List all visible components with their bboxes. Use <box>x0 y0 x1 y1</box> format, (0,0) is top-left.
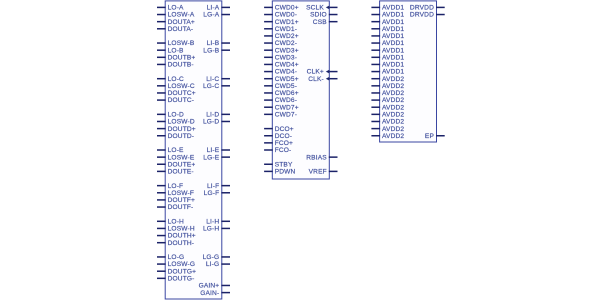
svg-text:CWD0+: CWD0+ <box>275 5 299 12</box>
svg-text:AVDD2: AVDD2 <box>382 97 404 104</box>
pin DOUTH+ (left, wire stub) <box>157 233 196 240</box>
svg-text:AVDD1: AVDD1 <box>382 26 404 33</box>
pin AVDD1 (left, wire stub) <box>371 5 404 12</box>
pin AVDD2 (left, wire stub) <box>371 112 404 119</box>
pin CWD1- (left, wire stub) <box>264 26 297 33</box>
svg-text:CWD4+: CWD4+ <box>275 62 299 69</box>
pin AVDD1 (left, wire stub) <box>371 47 404 54</box>
pin AVDD2 (left, wire stub) <box>371 104 404 111</box>
IC U1 block 3 (power) body <box>380 1 437 142</box>
pin LOSW-G (left, wire stub) <box>157 261 195 268</box>
svg-text:LG-B: LG-B <box>203 47 219 54</box>
pin AVDD1 (left, wire stub) <box>371 69 404 76</box>
svg-text:AVDD1: AVDD1 <box>382 33 404 40</box>
svg-text:AVDD2: AVDD2 <box>382 90 404 97</box>
svg-text:LO-C: LO-C <box>168 76 184 83</box>
pin LI-F (right, wire stub) <box>207 183 230 190</box>
pin EP (right, wire stub) <box>425 133 445 140</box>
svg-text:GAIN+: GAIN+ <box>199 283 220 290</box>
pin CSB (right, wire stub) <box>313 19 338 26</box>
svg-text:CWD6+: CWD6+ <box>275 90 299 97</box>
pin SCLK (right, wire stub, input arrow) <box>306 5 337 12</box>
svg-text:LOSW-G: LOSW-G <box>168 261 196 268</box>
pin CWD6- (left, wire stub) <box>264 97 297 104</box>
svg-text:LO-H: LO-H <box>168 218 184 225</box>
svg-text:DOUTF-: DOUTF- <box>168 204 194 211</box>
pin LOSW-F (left, wire stub) <box>157 190 194 197</box>
pin AVDD1 (left, wire stub) <box>371 40 404 47</box>
svg-text:AVDD1: AVDD1 <box>382 47 404 54</box>
svg-text:DOUTA-: DOUTA- <box>168 26 194 33</box>
pin AVDD2 (left, wire stub) <box>371 126 404 133</box>
pin DCO- (left, wire stub) <box>264 133 292 140</box>
pin LG-B (right, wire stub) <box>203 47 230 54</box>
pin LO-A (left, wire stub) <box>157 5 184 12</box>
svg-text:AVDD1: AVDD1 <box>382 19 404 26</box>
svg-text:CLK-: CLK- <box>308 76 324 83</box>
pin DOUTF- (left, wire stub) <box>157 204 193 211</box>
pin LO-G (left, wire stub) <box>157 254 184 261</box>
svg-text:DOUTG+: DOUTG+ <box>168 268 197 275</box>
pin LO-C (left, wire stub) <box>157 76 184 83</box>
pin CLK+ (right, wire stub, input arrow) <box>307 69 338 76</box>
pin AVDD2 (left, wire stub) <box>371 119 404 126</box>
svg-text:DOUTC-: DOUTC- <box>168 97 195 104</box>
svg-text:DOUTA+: DOUTA+ <box>168 19 195 26</box>
pin DOUTE- (left, wire stub) <box>157 169 194 176</box>
pin AVDD1 (left, wire stub) <box>371 54 404 61</box>
pin DOUTD+ (left, wire stub) <box>157 126 196 133</box>
svg-text:DOUTD-: DOUTD- <box>168 133 195 140</box>
pin LOSW-H (left, wire stub) <box>157 226 195 233</box>
svg-text:DRVDD: DRVDD <box>410 5 434 12</box>
svg-text:CWD3-: CWD3- <box>275 54 297 61</box>
svg-text:DOUTH-: DOUTH- <box>168 240 195 247</box>
pin LOSW-D (left, wire stub) <box>157 119 195 126</box>
pin GAIN- (right, wire stub) <box>200 290 230 297</box>
svg-text:CWD5-: CWD5- <box>275 83 297 90</box>
svg-text:VREF: VREF <box>309 169 327 176</box>
pin LOSW-A (left, wire stub) <box>157 12 195 19</box>
svg-text:LG-F: LG-F <box>204 190 220 197</box>
pin LG-E (right, wire stub) <box>203 154 230 161</box>
pin DOUTH- (left, wire stub) <box>157 240 194 247</box>
svg-text:LO-B: LO-B <box>168 47 184 54</box>
pin AVDD2 (left, wire stub) <box>371 76 404 83</box>
pin CWD0- (left, wire stub) <box>264 12 297 19</box>
svg-text:FCO-: FCO- <box>275 147 292 154</box>
svg-text:CSB: CSB <box>313 19 327 26</box>
svg-text:DOUTF+: DOUTF+ <box>168 197 195 204</box>
svg-text:DOUTB-: DOUTB- <box>168 62 194 69</box>
svg-text:RBIAS: RBIAS <box>306 154 327 161</box>
svg-text:LOSW-C: LOSW-C <box>168 83 195 90</box>
svg-text:CWD2-: CWD2- <box>275 40 297 47</box>
svg-text:DOUTE-: DOUTE- <box>168 169 194 176</box>
svg-text:LI-C: LI-C <box>206 76 219 83</box>
svg-text:CWD5+: CWD5+ <box>275 76 299 83</box>
pin DCO+ (left, wire stub) <box>264 126 294 133</box>
pin DOUTB- (left, wire stub) <box>157 62 194 69</box>
svg-text:LI-A: LI-A <box>207 5 220 12</box>
pin PDWN (left, wire stub) <box>264 169 295 176</box>
svg-text:CLK+: CLK+ <box>307 69 324 76</box>
pin LO-B (left, wire stub) <box>157 47 184 54</box>
svg-text:FCO+: FCO+ <box>275 140 293 147</box>
svg-text:LO-G: LO-G <box>168 254 185 261</box>
svg-text:CWD1+: CWD1+ <box>275 19 299 26</box>
svg-text:DOUTG-: DOUTG- <box>168 275 195 282</box>
pin CWD7+ (left, wire stub) <box>264 104 299 111</box>
svg-text:LI-H: LI-H <box>206 218 219 225</box>
pin LOSW-C (left, wire stub) <box>157 83 195 90</box>
svg-text:LG-H: LG-H <box>203 226 219 233</box>
svg-text:AVDD1: AVDD1 <box>382 62 404 69</box>
pin GAIN+ (right, wire stub) <box>199 283 230 290</box>
pin AVDD2 (left, wire stub) <box>371 83 404 90</box>
pin LG-A (right, wire stub) <box>203 12 230 19</box>
pin CWD4+ (left, wire stub) <box>264 62 299 69</box>
pin CWD5- (left, wire stub) <box>264 83 297 90</box>
svg-text:LOSW-H: LOSW-H <box>168 226 195 233</box>
pin DOUTB+ (left, wire stub) <box>157 54 195 61</box>
pin LI-B (right, wire stub) <box>207 40 230 47</box>
svg-text:DRVDD: DRVDD <box>410 12 434 19</box>
svg-text:PDWN: PDWN <box>275 169 296 176</box>
pin LO-F (left, wire stub) <box>157 183 183 190</box>
pin AVDD1 (left, wire stub) <box>371 12 404 19</box>
svg-text:DOUTE+: DOUTE+ <box>168 161 196 168</box>
svg-text:AVDD1: AVDD1 <box>382 5 404 12</box>
svg-text:LO-A: LO-A <box>168 5 184 12</box>
svg-text:LI-B: LI-B <box>207 40 220 47</box>
svg-text:CWD2+: CWD2+ <box>275 33 299 40</box>
svg-text:STBY: STBY <box>275 161 293 168</box>
pin DOUTE+ (left, wire stub) <box>157 161 195 168</box>
pin LI-G (right, wire stub) <box>206 261 230 268</box>
pin LG-G (right, wire stub) <box>203 254 230 261</box>
svg-text:AVDD1: AVDD1 <box>382 12 404 19</box>
pin DOUTG- (left, wire stub) <box>157 275 195 282</box>
IC U1 block 2 (CWD / control) body <box>272 1 329 179</box>
pin LI-E (right, wire stub) <box>207 147 230 154</box>
pin DOUTC+ (left, wire stub) <box>157 90 196 97</box>
pin DOUTA- (left, wire stub) <box>157 26 193 33</box>
svg-text:AVDD2: AVDD2 <box>382 83 404 90</box>
svg-text:LOSW-E: LOSW-E <box>168 154 195 161</box>
pin RBIAS (right, wire stub) <box>306 154 337 161</box>
svg-text:AVDD2: AVDD2 <box>382 112 404 119</box>
pin LI-C (right, wire stub) <box>206 76 230 83</box>
pin CLK- (right, wire stub, input arrow) <box>308 76 337 83</box>
pin LG-D (right, wire stub) <box>203 119 230 126</box>
svg-text:SCLK: SCLK <box>306 5 324 12</box>
pin VREF (right, wire stub) <box>309 169 338 176</box>
pin AVDD1 (left, wire stub) <box>371 19 404 26</box>
svg-text:LI-E: LI-E <box>207 147 220 154</box>
svg-text:LOSW-F: LOSW-F <box>168 190 194 197</box>
svg-text:DCO-: DCO- <box>275 133 292 140</box>
svg-text:AVDD2: AVDD2 <box>382 133 404 140</box>
pin DRVDD (right, wire stub) <box>410 12 445 19</box>
svg-text:CWD7-: CWD7- <box>275 112 297 119</box>
svg-text:SDIO: SDIO <box>310 12 327 19</box>
pin CWD5+ (left, wire stub) <box>264 76 299 83</box>
pin CWD7- (left, wire stub) <box>264 112 297 119</box>
pin DOUTG+ (left, wire stub) <box>157 268 196 275</box>
svg-text:LOSW-D: LOSW-D <box>168 119 195 126</box>
svg-text:LG-E: LG-E <box>203 154 219 161</box>
svg-text:LO-D: LO-D <box>168 112 184 119</box>
pin AVDD2 (left, wire stub) <box>371 133 404 140</box>
pin LI-A (right, wire stub) <box>207 5 230 12</box>
svg-text:LG-C: LG-C <box>203 83 219 90</box>
svg-text:DOUTC+: DOUTC+ <box>168 90 196 97</box>
pin LO-D (left, wire stub) <box>157 112 184 119</box>
pin FCO- (left, wire stub) <box>264 147 291 154</box>
svg-text:DCO+: DCO+ <box>275 126 294 133</box>
pin CWD3- (left, wire stub) <box>264 54 297 61</box>
svg-text:LOSW-A: LOSW-A <box>168 12 195 19</box>
svg-text:AVDD2: AVDD2 <box>382 119 404 126</box>
svg-text:AVDD1: AVDD1 <box>382 54 404 61</box>
pin LI-D (right, wire stub) <box>206 112 230 119</box>
pin AVDD1 (left, wire stub) <box>371 62 404 69</box>
IC U1 block 1 (channel I/O) body <box>165 1 222 299</box>
svg-text:AVDD2: AVDD2 <box>382 104 404 111</box>
pin DOUTC- (left, wire stub) <box>157 97 194 104</box>
svg-text:CWD6-: CWD6- <box>275 97 297 104</box>
pin LO-H (left, wire stub) <box>157 218 184 225</box>
svg-text:AVDD1: AVDD1 <box>382 40 404 47</box>
svg-text:AVDD2: AVDD2 <box>382 76 404 83</box>
svg-text:DOUTB+: DOUTB+ <box>168 54 196 61</box>
svg-text:EP: EP <box>425 133 435 140</box>
svg-text:DOUTD+: DOUTD+ <box>168 126 196 133</box>
pin LOSW-E (left, wire stub) <box>157 154 195 161</box>
pin CWD0+ (left, wire stub) <box>264 5 299 12</box>
pin DOUTF+ (left, wire stub) <box>157 197 195 204</box>
svg-text:CWD4-: CWD4- <box>275 69 297 76</box>
svg-text:LG-A: LG-A <box>203 12 219 19</box>
pin CWD2+ (left, wire stub) <box>264 33 299 40</box>
pin AVDD2 (left, wire stub) <box>371 97 404 104</box>
pin DRVDD (right, wire stub) <box>410 5 445 12</box>
pin DOUTA+ (left, wire stub) <box>157 19 195 26</box>
pin DOUTD- (left, wire stub) <box>157 133 194 140</box>
pin LOSW-B (left, wire stub) <box>157 40 195 47</box>
svg-text:CWD1-: CWD1- <box>275 26 297 33</box>
pin STBY (left, wire stub) <box>264 161 293 168</box>
pin CWD3+ (left, wire stub) <box>264 47 299 54</box>
pin CWD6+ (left, wire stub) <box>264 90 299 97</box>
svg-text:LO-F: LO-F <box>168 183 184 190</box>
svg-text:CWD7+: CWD7+ <box>275 104 299 111</box>
svg-text:CWD0-: CWD0- <box>275 12 297 19</box>
pin CWD1+ (left, wire stub) <box>264 19 299 26</box>
svg-text:CWD3+: CWD3+ <box>275 47 299 54</box>
svg-text:LOSW-B: LOSW-B <box>168 40 195 47</box>
pin FCO+ (left, wire stub) <box>264 140 293 147</box>
pin LO-E (left, wire stub) <box>157 147 184 154</box>
pin CWD4- (left, wire stub) <box>264 69 297 76</box>
svg-text:LG-G: LG-G <box>203 254 220 261</box>
svg-text:AVDD2: AVDD2 <box>382 126 404 133</box>
pin LG-C (right, wire stub) <box>203 83 230 90</box>
svg-text:LI-F: LI-F <box>207 183 219 190</box>
pin AVDD2 (left, wire stub) <box>371 90 404 97</box>
svg-text:AVDD1: AVDD1 <box>382 69 404 76</box>
pin CWD2- (left, wire stub) <box>264 40 297 47</box>
svg-text:LI-D: LI-D <box>206 112 219 119</box>
pin LI-H (right, wire stub) <box>206 218 230 225</box>
pin AVDD1 (left, wire stub) <box>371 26 404 33</box>
svg-text:DOUTH+: DOUTH+ <box>168 233 196 240</box>
svg-text:LI-G: LI-G <box>206 261 219 268</box>
svg-text:LG-D: LG-D <box>203 119 219 126</box>
pin LG-F (right, wire stub) <box>204 190 230 197</box>
pin AVDD1 (left, wire stub) <box>371 33 404 40</box>
pin LG-H (right, wire stub) <box>203 226 230 233</box>
svg-text:LO-E: LO-E <box>168 147 184 154</box>
svg-text:GAIN-: GAIN- <box>200 290 219 297</box>
pin SDIO (right, wire stub) <box>310 12 337 19</box>
